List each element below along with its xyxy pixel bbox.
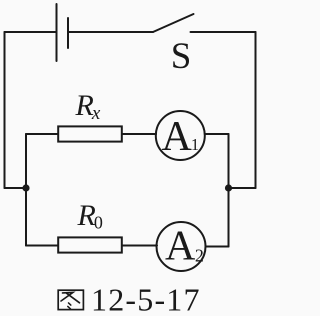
wire inner-left vertical [25, 134, 27, 246]
wire A1 to inner-right vertical [205, 133, 229, 135]
switch S blade [153, 14, 194, 32]
wire switch right contact to top-right corner [191, 31, 256, 33]
wire left rail [4, 32, 6, 188]
battery GB short plate [67, 18, 69, 48]
battery GB long plate [56, 4, 58, 61]
caption hanzi TU (figure) drawn as paths [58, 290, 83, 309]
wire A2 to inner-right vertical [206, 246, 229, 248]
ammeter A1 circle [156, 111, 205, 160]
svg-text:S: S [171, 36, 192, 77]
wire R0 to ammeter A2 [122, 245, 157, 247]
node junction dot right [225, 184, 232, 191]
wire left jog to node [5, 187, 27, 189]
ammeter A2 circle [157, 222, 206, 271]
wire right rail [255, 32, 257, 188]
wire node to resistor R0 [26, 245, 58, 247]
resistor Rx body [58, 126, 122, 141]
wire inner-right vertical [228, 134, 230, 247]
resistor R0 body [58, 237, 122, 252]
wire right jog to node [229, 187, 256, 189]
wire Rx to ammeter A1 [122, 133, 156, 135]
wire battery to switch [69, 31, 153, 33]
node junction dot left [22, 184, 29, 191]
svg-text:12-5-17: 12-5-17 [91, 282, 201, 316]
wire node to resistor Rx [26, 133, 58, 135]
wire top-left from left rail to battery [5, 31, 56, 33]
